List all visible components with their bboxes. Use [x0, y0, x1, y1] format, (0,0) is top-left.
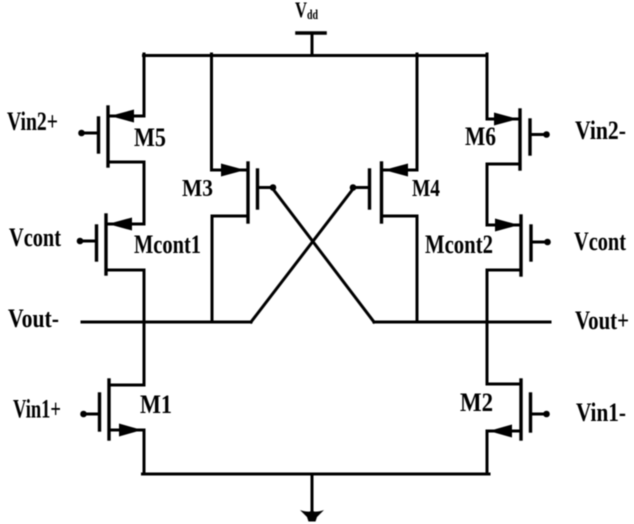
svg-text:M3: M3 — [182, 176, 213, 202]
svg-text:Vin1-: Vin1- — [576, 398, 626, 427]
svg-text:Vcont: Vcont — [574, 227, 626, 256]
svg-text:Vin1+: Vin1+ — [13, 395, 61, 424]
svg-text:Mcont1: Mcont1 — [134, 230, 201, 259]
svg-text:Vin2-: Vin2- — [575, 116, 626, 145]
svg-text:M5: M5 — [134, 123, 166, 152]
svg-text:Mcont2: Mcont2 — [425, 230, 493, 259]
svg-text:Vout+: Vout+ — [575, 306, 629, 335]
svg-text:M4: M4 — [412, 176, 440, 202]
svg-text:Vout-: Vout- — [8, 304, 59, 333]
svg-text:Vin2+: Vin2+ — [7, 107, 58, 136]
svg-text:V: V — [295, 0, 307, 22]
svg-text:M2: M2 — [460, 388, 493, 417]
svg-text:dd: dd — [307, 8, 318, 23]
svg-text:M1: M1 — [140, 390, 172, 419]
svg-text:M6: M6 — [465, 122, 496, 151]
svg-text:Vcont: Vcont — [9, 223, 61, 252]
